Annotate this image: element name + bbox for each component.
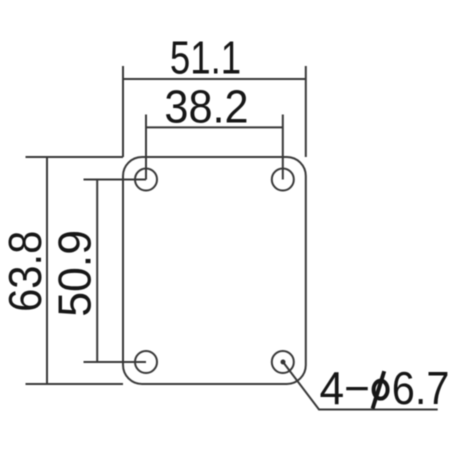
svg-text:51.1: 51.1 xyxy=(170,31,241,83)
svg-text:4−: 4− xyxy=(320,362,370,414)
svg-text:63.8: 63.8 xyxy=(0,231,51,312)
svg-text:38.2: 38.2 xyxy=(164,83,248,133)
svg-text:6.7: 6.7 xyxy=(392,363,450,414)
svg-text:50.9: 50.9 xyxy=(49,230,101,317)
